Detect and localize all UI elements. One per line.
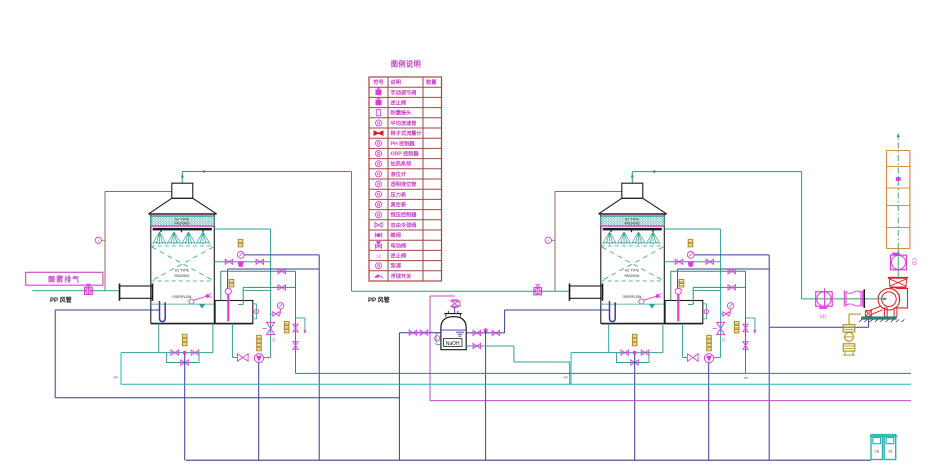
valve on drain T1: [225, 259, 233, 264]
fan outlet transition: [888, 278, 908, 288]
pipe tag near standpipe T1: [229, 280, 234, 283]
NaOH suction right line: [466, 332, 504, 334]
svg-text:PACKING: PACKING: [174, 274, 189, 278]
svg-text:PH 控制器: PH 控制器: [391, 139, 416, 147]
junction NaOH: [484, 329, 487, 332]
svg-text:逆止阀: 逆止阀: [391, 99, 407, 107]
valve green manifold T1: [278, 285, 286, 290]
svg-text:S1: S1: [722, 338, 726, 342]
tower T1 pump tank: [215, 301, 253, 324]
flow arrow into fan: [883, 297, 887, 300]
svg-text:蝶阀: 蝶阀: [391, 231, 401, 239]
pump tag T1: [257, 335, 262, 338]
tower T2 body walls: [600, 214, 602, 324]
svg-text:S1: S1: [272, 338, 276, 342]
svg-text:酸雾排气: 酸雾排气: [48, 275, 80, 284]
svg-text:PP 风管: PP 风管: [368, 296, 390, 304]
stack exit arrow: [897, 133, 900, 138]
flexible bellows: [844, 289, 864, 308]
fan base: [862, 317, 897, 319]
inlet duct T1: [120, 286, 153, 298]
gauge valve T1: [273, 312, 279, 316]
navy branch to fan base: [770, 326, 869, 328]
acid mist exhaust label box: [26, 272, 103, 285]
tower T2 top cone: [599, 198, 667, 214]
flow arrow up T2 outlet: [631, 173, 634, 177]
svg-text:PP: PP: [744, 376, 748, 380]
pipe tag drain T1: [182, 334, 187, 337]
NaOH bottom drain line: [466, 345, 514, 347]
junction T1: [183, 351, 186, 354]
tower T1 manifold drop to bottom header: [318, 255, 320, 460]
valve NaOH left: [409, 330, 417, 335]
svg-text:VD: VD: [820, 315, 827, 321]
tower T2 spray nozzle fans: [603, 232, 617, 244]
svg-text:真空表: 真空表: [391, 201, 407, 209]
svg-text:PP 风管: PP 风管: [50, 296, 72, 304]
bottom cyan header: [120, 353, 122, 385]
pipe tag near standpipe T2: [679, 280, 684, 283]
svg-text:液位计: 液位计: [391, 170, 407, 178]
svg-text:ORP 控制器: ORP 控制器: [391, 150, 420, 158]
tower T1 strainer: [238, 262, 243, 267]
valve riser T2: [743, 324, 748, 332]
svg-text:透明液位管: 透明液位管: [391, 180, 417, 188]
tower T1 tank drain stubs: [158, 324, 160, 353]
tower T1 top cone: [149, 198, 217, 214]
tower T2 spray header: [603, 228, 662, 230]
sample point A2: [545, 237, 551, 243]
svg-text:浮球开关: 浮球开关: [391, 272, 413, 280]
NaOH tank lid: [445, 314, 447, 317]
svg-text:12: 12: [376, 254, 381, 259]
tower T1 gauge on riser: [277, 303, 283, 309]
svg-text:CD: CD: [911, 258, 917, 266]
tower T1 packing zone K2 dashed: [151, 245, 215, 247]
junction T2: [633, 351, 636, 354]
NaOH dosing tank: [435, 311, 467, 350]
tower T2 demister packing band S1: [601, 217, 665, 226]
flexible connector inlet T1: [87, 284, 91, 287]
pipe tag T1 manifold: [238, 239, 243, 242]
svg-text:图例说明: 图例说明: [391, 60, 421, 69]
tower T1 manifold navy line 1: [244, 254, 319, 256]
NaOH label box: [444, 339, 463, 347]
tower T2 pump P2 suction: [681, 324, 683, 358]
flow arrow duct1: [203, 170, 207, 173]
svg-text:PACKING: PACKING: [624, 274, 639, 278]
duct from tower2 outlet to fan: [631, 172, 633, 184]
tower T2 pump discharge drop: [708, 363, 710, 460]
tower T1 overflow dip tube: [160, 301, 166, 322]
gauge valve T2: [723, 312, 729, 316]
tower T2 manifold navy line 2: [678, 268, 770, 270]
inlet duct line (acid mist): [32, 290, 119, 292]
tower T2 drain to bottom header: [634, 354, 636, 460]
tower T2 sight level gauge: [703, 304, 707, 319]
drain valve T1: [171, 350, 179, 355]
pump P2: [704, 354, 713, 363]
collection tank 1: [870, 435, 884, 460]
bottom dark teal header: [296, 372, 912, 374]
valve NaOH left 2: [420, 330, 428, 335]
svg-text:CB: CB: [874, 450, 879, 454]
tower T1 S1 relief valve: [267, 322, 275, 334]
tower T1 spray nozzle fans: [153, 232, 167, 244]
valve green manifold T2: [728, 285, 736, 290]
bypass sampling line T2 (brown): [554, 192, 556, 292]
svg-text:加热系统: 加热系统: [390, 160, 413, 168]
tower T1 sump tank bottom: [151, 323, 253, 325]
duct from tower1 outlet to tower2 inlet: [181, 172, 183, 184]
tower T2 sump tank bottom: [601, 323, 703, 325]
valve NaOH drain: [473, 343, 481, 348]
flow arrow up T1 outlet: [181, 173, 184, 177]
tower T2 drain bypass loop: [617, 353, 650, 363]
svg-text:手动调节阀: 手动调节阀: [391, 88, 417, 96]
tower T1 drain stub with arrow: [296, 317, 305, 319]
tower T2 S1 relief valve: [717, 322, 725, 334]
pipe tag T2 manifold: [688, 239, 693, 242]
tower T1 pump discharge drop: [258, 363, 260, 460]
tower T2 gauge on riser: [727, 303, 733, 309]
tower T1 drain bypass loop: [167, 353, 200, 363]
bottom navy drain header: [186, 459, 871, 461]
tower T1 drain manifold: [121, 352, 213, 354]
svg-text:NaOH: NaOH: [446, 341, 460, 347]
tower2 riser join: [745, 271, 747, 373]
tower T2 drain manifold: [571, 352, 663, 354]
tower T2 drain line with valves: [664, 261, 720, 263]
svg-text:双由令球阀: 双由令球阀: [391, 221, 417, 229]
pump P1: [254, 354, 263, 363]
svg-text:防震接头: 防震接头: [391, 109, 413, 117]
flexible connector inlet T2: [536, 285, 540, 288]
tower T2 pump tank: [665, 301, 703, 324]
svg-text:压力表: 压力表: [391, 190, 407, 198]
tower T1 body walls: [150, 214, 152, 324]
svg-text:说明: 说明: [391, 78, 401, 86]
tower T1 green recirculation manifold: [221, 270, 296, 272]
exhaust stack: [887, 133, 910, 249]
tower T2 spray feed line: [664, 228, 720, 230]
svg-text:PACKING: PACKING: [624, 222, 639, 226]
legend table: [369, 60, 442, 282]
tower T1 drain to bottom header: [184, 354, 186, 460]
tower T1 outlet box: [172, 183, 193, 198]
dip line to T2 tank: [505, 309, 610, 311]
bypass sampling line T1 (brown): [104, 192, 106, 291]
valve riser T1: [293, 324, 298, 332]
tower T1 riser branch: [295, 271, 297, 373]
pipe tag near S1 T1: [284, 322, 289, 325]
tower T2 outlet box: [622, 183, 643, 198]
pipe tag near S1 T2: [734, 322, 739, 325]
valve green manifold T1: [278, 269, 286, 274]
tower T2 green recirculation manifold: [671, 270, 746, 272]
NaOH liquid level: [441, 329, 466, 331]
svg-text:CB: CB: [888, 450, 893, 454]
svg-text:药: 药: [458, 304, 461, 308]
tower T2 water level: [601, 303, 665, 305]
tower T2 manifold drop to bottom header: [768, 255, 770, 460]
svg-text:转子式流量计: 转子式流量计: [391, 129, 423, 137]
svg-text:PP: PP: [114, 376, 118, 380]
NaOH fill valve: [451, 301, 458, 306]
svg-text:电动阀: 电动阀: [391, 241, 407, 249]
centrifugal fan: [868, 288, 908, 316]
svg-text:符号: 符号: [373, 78, 383, 86]
bypass valve T1: [181, 360, 189, 365]
tower T2 tank drain stubs: [608, 324, 610, 353]
valve on drain T2: [675, 259, 683, 264]
valve riser T1: [293, 342, 298, 350]
drain valve T1: [191, 350, 199, 355]
drain valve T2: [641, 350, 649, 355]
valve green manifold T2: [728, 269, 736, 274]
flow arrow duct2: [653, 170, 657, 173]
NaOH suction left line: [399, 332, 441, 334]
pressure gauge T1 manifold: [237, 252, 244, 259]
svg-text:PP: PP: [564, 376, 568, 380]
valve NaOH right 2: [492, 330, 500, 335]
tower T1 pump suction standpipe: [227, 294, 229, 321]
svg-text:泵浦: 泵浦: [391, 262, 402, 270]
stack centerline: [897, 138, 899, 249]
stack sensor: [896, 178, 900, 181]
svg-text:K2 TYPE: K2 TYPE: [625, 269, 640, 273]
valve NaOH right: [473, 330, 481, 335]
fan scroll tail: [868, 307, 883, 316]
tower T1 spray feed line: [214, 228, 270, 230]
pressure gauge T2 manifold: [687, 252, 694, 259]
drain valve T2: [621, 350, 629, 355]
tower T2 overflow dip tube: [610, 301, 616, 322]
tower T2 riser branch: [745, 271, 747, 373]
NaOH fill line (magenta): [430, 295, 455, 297]
legend outer border: [369, 77, 442, 281]
tower T2 strainer: [688, 262, 693, 267]
tower T1 sight level gauge: [253, 304, 257, 319]
NaOH drop to header: [485, 331, 487, 460]
svg-text:OVERFLOW: OVERFLOW: [173, 295, 193, 299]
svg-text:数量: 数量: [426, 78, 437, 86]
valve on drain T1: [256, 259, 264, 264]
NaOH left level gauge: [436, 333, 441, 345]
scrubber tower T2: [571, 183, 769, 460]
stack CD damper: [891, 249, 917, 278]
svg-text:OVERFLOW: OVERFLOW: [623, 295, 643, 299]
fan drain pot: [866, 311, 872, 317]
sample point A1: [95, 237, 101, 243]
bypass valve T2: [631, 360, 639, 365]
pump tag T2: [707, 335, 712, 338]
tower T1 water level: [151, 303, 215, 305]
valve on drain T2: [706, 259, 714, 264]
scrubber tower T1: [121, 183, 319, 460]
svg-text:恒压控制器: 恒压控制器: [391, 211, 418, 219]
T2 drain stub to header: [570, 353, 572, 385]
pipe tag drain T2: [632, 334, 637, 337]
svg-text:PACKING: PACKING: [174, 222, 189, 226]
tower T1 pump P1 suction: [231, 324, 233, 358]
pump inlet valve T1: [238, 354, 249, 361]
tower T2 float switch: [639, 299, 644, 304]
tower T2 pump suction standpipe: [677, 294, 679, 321]
svg-text:平均流速管: 平均流速管: [391, 119, 417, 127]
tower T2 drain stub with arrow: [746, 317, 755, 319]
tower T2 manifold navy line 1: [694, 254, 769, 256]
fan inlet flange: [863, 289, 865, 308]
inlet duct T2: [570, 286, 603, 298]
tower T1 manifold navy line 2: [228, 268, 320, 270]
tower T2 packing zone K2 dashed: [601, 245, 665, 247]
tower T1 drain line with valves: [214, 261, 270, 263]
pump inlet valve T2: [688, 354, 699, 361]
fan base olive instruments: [843, 314, 861, 355]
valve riser T2: [743, 342, 748, 350]
overflow drain line T1: [55, 309, 159, 311]
tower T1 spray header: [153, 228, 212, 230]
VD damper: [816, 288, 833, 320]
svg-text:逆止阀: 逆止阀: [391, 252, 407, 260]
tower T1 demister packing band S1: [151, 217, 215, 226]
collection tank 2: [883, 435, 897, 460]
tower T1 float switch: [189, 299, 194, 304]
svg-text:K2 TYPE: K2 TYPE: [175, 269, 190, 273]
